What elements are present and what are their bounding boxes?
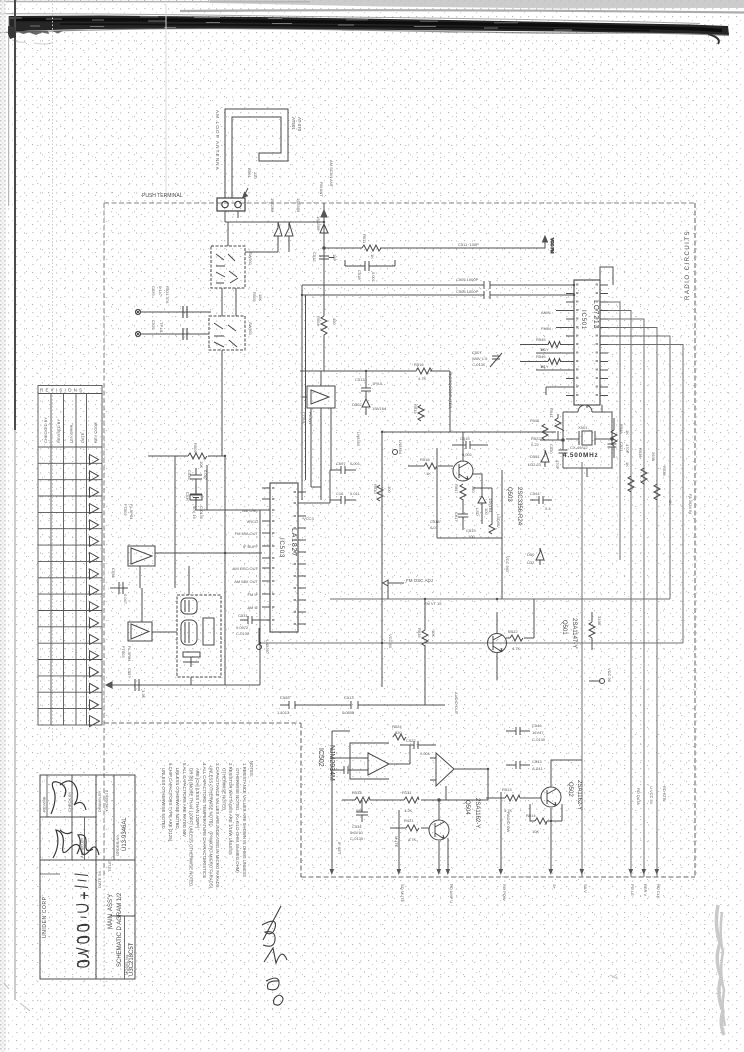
- svg-text:FM VT 15: FM VT 15: [424, 601, 442, 606]
- wire TP1: [141, 311, 211, 313]
- wire ic501 bottom pin: [587, 405, 602, 412]
- wire right bus C: [608, 319, 644, 877]
- capacitor C536: [190, 468, 202, 486]
- svg-text:OTHERWISE NOTED. (K=KILO-OHM,: OTHERWISE NOTED. (K=KILO-OHM, M=MEG OHM): [235, 768, 240, 873]
- svg-text:2SA1162-Y: 2SA1162-Y: [576, 780, 582, 810]
- svg-text:FL-5P64: FL-5P64: [129, 504, 134, 520]
- diode D501: [541, 450, 549, 467]
- svg-text:ARE [CH] (LESS THAN 120PF): ARE [CH] (LESS THAN 120PF): [195, 768, 200, 829]
- svg-text:4.7K: 4.7K: [512, 646, 521, 651]
- resistor R529: [589, 612, 595, 650]
- svg-text:18P: 18P: [332, 254, 337, 261]
- diode D503 varactor: [478, 496, 486, 510]
- wire FMIN: [556, 327, 566, 329]
- wire vcc90 vertical: [382, 432, 388, 687]
- svg-text:IC503: IC503: [278, 538, 284, 558]
- node label RADIO CIRCUITS: [685, 230, 691, 300]
- capacitor C529: [183, 306, 187, 318]
- wire fm ant vertical: [323, 238, 325, 371]
- wire opamp B out: [446, 769, 488, 800]
- svg-text:C522: C522: [406, 738, 416, 743]
- svg-text:CHECKED BY: CHECKED BY: [43, 417, 48, 443]
- diode D504: [536, 548, 544, 565]
- wire crystal right rail: [611, 412, 614, 441]
- svg-text:Q501: Q501: [561, 620, 567, 635]
- svg-text:RD STB: RD STB: [662, 786, 667, 801]
- svg-text:C525: C525: [151, 320, 156, 330]
- capacitor C543: [506, 761, 530, 769]
- svg-text:PT501: PT501: [302, 412, 307, 425]
- wire right bus A: [608, 302, 620, 560]
- transistor Q501: [488, 634, 507, 653]
- resistor R510: [377, 485, 383, 501]
- svg-text:SW501: SW501: [248, 252, 253, 266]
- svg-text:R517: R517: [454, 484, 459, 494]
- svg-text:R548: R548: [619, 424, 624, 434]
- diode D512: [320, 224, 328, 233]
- resistor R519: [489, 524, 495, 534]
- wire q503 bias loop: [437, 448, 502, 599]
- svg-text:0.001: 0.001: [420, 751, 431, 756]
- filter CF503: [128, 622, 152, 641]
- svg-text:AUDIO OUT: AUDIO OUT: [454, 692, 459, 715]
- wire q501 stubs: [497, 599, 534, 680]
- svg-text:1K: 1K: [625, 430, 630, 435]
- svg-text:1K: 1K: [370, 254, 375, 259]
- terminal TP1: [135, 309, 140, 314]
- capacitor C513: [361, 371, 371, 399]
- svg-text:SW501: SW501: [248, 322, 253, 336]
- svg-text:C505 1000P: C505 1000P: [456, 277, 479, 282]
- node label ANIN: [541, 310, 551, 315]
- svg-text:F546: F546: [530, 418, 540, 423]
- svg-text:SA V: SA V: [583, 884, 588, 893]
- svg-text:C544: C544: [530, 491, 540, 496]
- node label SQ MUTE: [400, 884, 405, 903]
- svg-text:R514: R514: [526, 813, 536, 818]
- svg-text:LN5394: LN5394: [398, 440, 403, 455]
- svg-text:C538: C538: [111, 568, 116, 578]
- svg-text:CHECK.BY: CHECK.BY: [67, 791, 72, 812]
- svg-text:C506 1000P: C506 1000P: [456, 289, 479, 294]
- schematic border frame: [103, 877, 105, 988]
- node label LN5393: [356, 432, 361, 447]
- svg-text:DATE: DATE: [80, 432, 85, 443]
- svg-text:0.011: 0.011: [350, 491, 360, 496]
- svg-text:C521: C521: [619, 442, 624, 452]
- svg-text:RD DATA: RD DATA: [636, 788, 641, 805]
- wire pin 13: [546, 387, 566, 395]
- node label Q501: [561, 618, 577, 648]
- svg-text:0.001: 0.001: [350, 461, 361, 466]
- svg-text:18K: 18K: [258, 294, 263, 301]
- svg-text:C519: C519: [466, 528, 476, 533]
- svg-text:U VCC 5V: U VCC 5V: [649, 786, 654, 805]
- svg-text:820: 820: [395, 730, 402, 735]
- wire crystal left rail: [540, 412, 564, 444]
- svg-text:16V47: 16V47: [532, 730, 544, 735]
- svg-text:R538: R538: [662, 466, 667, 476]
- wire q503 emitter right: [473, 474, 482, 524]
- wire antenna arrow: [243, 188, 248, 197]
- wire gnd drops: [332, 731, 501, 871]
- svg-text:R536: R536: [638, 448, 643, 458]
- capacitor C515b: [452, 441, 488, 449]
- svg-text:0.001: 0.001: [371, 272, 376, 283]
- svg-text:C557: C557: [127, 668, 132, 678]
- svg-text:R515: R515: [413, 404, 418, 414]
- svg-text:R509: R509: [193, 443, 198, 453]
- svg-text:C543: C543: [532, 759, 542, 764]
- wire fl502-fl503: [142, 588, 177, 632]
- svg-text:2SC3356-R24: 2SC3356-R24: [516, 487, 522, 526]
- wire y800: [342, 799, 488, 801]
- svg-text:C515: C515: [460, 436, 470, 441]
- resistor R513: [486, 795, 541, 801]
- svg-text:REV CODE: REV CODE: [93, 422, 98, 443]
- svg-text:R545: R545: [536, 337, 546, 342]
- handwritten E13-6994: [75, 874, 89, 967]
- svg-text:R505: R505: [252, 292, 257, 302]
- svg-text:1SV164: 1SV164: [488, 498, 493, 513]
- svg-text:450: 450: [332, 318, 337, 325]
- svg-text:10K: 10K: [199, 461, 204, 468]
- svg-text:C555: C555: [280, 695, 290, 700]
- wire q503 collector: [382, 371, 556, 461]
- node label U VCC 5V: [649, 786, 654, 805]
- svg-text:4.ALL CAPACITORS TEMPERATURE C: 4.ALL CAPACITORS TEMPERATURE CHARACTERIS…: [202, 763, 207, 878]
- resistor R512: [506, 635, 534, 641]
- wire hop crystal: [563, 405, 612, 412]
- svg-text:FT502: FT502: [123, 504, 128, 516]
- svg-text:2SA1147-Y: 2SA1147-Y: [571, 618, 577, 648]
- svg-text:0.01: 0.01: [430, 525, 439, 530]
- node label AM LOOP ANTENNA: [215, 110, 220, 171]
- svg-text:0.0972: 0.0972: [236, 625, 249, 630]
- svg-text:H1Y: H1Y: [541, 347, 549, 352]
- svg-text:470P: 470P: [555, 460, 560, 470]
- svg-text:UNLESS OTHERWISE NOTED.: UNLESS OTHERWISE NOTED.: [161, 768, 166, 830]
- node label SW501: [248, 252, 253, 336]
- diode D511: [285, 222, 293, 246]
- svg-text:2938: 2938: [651, 452, 656, 462]
- svg-text:C520: C520: [549, 444, 554, 454]
- svg-text:1SS355: 1SS355: [316, 216, 321, 231]
- IC U503 LA1827: [270, 483, 298, 632]
- filter PT501: [307, 386, 335, 408]
- svg-text:C16: C16: [336, 491, 344, 496]
- svg-text:C507: C507: [472, 350, 482, 355]
- svg-text:IC502: IC502: [317, 748, 324, 767]
- svg-text:WAV 1.5: WAV 1.5: [472, 356, 488, 361]
- node label 1SS355: [270, 198, 275, 213]
- svg-text:FM MIA OUT: FM MIA OUT: [235, 531, 259, 536]
- node label Q502: [567, 780, 582, 810]
- diode D502 varactor: [362, 399, 370, 415]
- svg-text:VCC 9IG: VCC 9IG: [505, 556, 510, 572]
- svg-text:R535: R535: [417, 628, 422, 638]
- svg-text:R513: R513: [502, 787, 512, 792]
- svg-text:C511 100P: C511 100P: [458, 242, 479, 247]
- svg-text:D502: D502: [352, 402, 362, 407]
- wire opamp A out: [330, 745, 410, 774]
- wire pin K1Y: [536, 369, 566, 371]
- svg-text:PO LE: PO LE: [630, 884, 635, 896]
- IC501 left pins: [566, 285, 574, 396]
- node label 4.500MHz: [563, 445, 599, 459]
- svg-text:4.500MHz: 4.500MHz: [563, 452, 599, 459]
- node label FA-3934-IN: [688, 494, 693, 514]
- svg-text:VCC3: VCC3: [303, 516, 314, 521]
- svg-text:REV/MK: REV/MK: [42, 796, 47, 812]
- capacitor C521: [608, 441, 617, 468]
- svg-text:C531: C531: [238, 613, 248, 618]
- resistor R548: [611, 418, 617, 458]
- svg-text:10K: 10K: [431, 630, 436, 637]
- svg-text:C546: C546: [532, 723, 542, 728]
- bottom arrowheads: [330, 869, 660, 875]
- svg-text:3.CAPACITANCE VALUES ARE INDIC: 3.CAPACITANCE VALUES ARE INDICATED IN MI…: [215, 763, 220, 888]
- wire antenna feed: [289, 203, 327, 246]
- svg-text:Q503: Q503: [506, 487, 512, 502]
- node label 1SS355: [316, 216, 321, 231]
- node label C511: [458, 242, 479, 247]
- svg-text:1K: 1K: [668, 500, 673, 505]
- IC U502 label: [317, 745, 335, 781]
- terminal LN5397: [257, 628, 262, 650]
- svg-text:SCHEMATIC D AGRAM 1/2: SCHEMATIC D AGRAM 1/2: [117, 892, 123, 967]
- svg-text:FA 3934 IN: FA 3934 IN: [688, 494, 693, 514]
- svg-text:LSD/5V: LSD/5V: [496, 514, 501, 528]
- svg-text:TITLE: TITLE: [107, 861, 112, 872]
- wire fl502 out: [155, 552, 262, 554]
- svg-text:OTHERWISE NOTED.: OTHERWISE NOTED.: [222, 768, 227, 811]
- wire am osc: [196, 502, 262, 510]
- wire between switches: [222, 288, 236, 316]
- svg-text:OR [B] (MORE THAN 120PF) UNLES: OR [B] (MORE THAN 120PF) UNLESS OTHERWIS…: [189, 768, 194, 887]
- svg-text:AM LOOP ANTENNA: AM LOOP ANTENNA: [215, 110, 220, 171]
- svg-text:AM OSC OUT: AM OSC OUT: [233, 566, 259, 571]
- connector push terminal: [217, 198, 245, 211]
- svg-text:REVISED BY: REVISED BY: [56, 419, 61, 443]
- svg-text:LN5393: LN5393: [356, 432, 361, 447]
- node label IF SET: [337, 842, 342, 855]
- capacitor C522: [400, 741, 436, 749]
- capacitor C531: [240, 616, 262, 624]
- svg-text:VRCO: VRCO: [246, 519, 258, 524]
- svg-text:Q502: Q502: [567, 782, 573, 797]
- resistor R541: [555, 414, 564, 440]
- svg-text:R541: R541: [549, 408, 554, 418]
- node label AT501: [291, 117, 302, 132]
- svg-text:5.ALL CAPACITORS ARE RATED 50V: 5.ALL CAPACITORS ARE RATED 50V: [182, 763, 187, 837]
- svg-text:LEV./MHA: LEV./MHA: [69, 424, 74, 443]
- trimmer C507: [472, 350, 488, 367]
- wire left verticals: [175, 350, 260, 685]
- wire crystal gnd: [563, 468, 612, 477]
- switch SW501-1: [211, 246, 245, 288]
- node label FM VT: [424, 601, 442, 606]
- node label X501: [578, 425, 588, 430]
- handwritten signatures: [51, 781, 99, 858]
- svg-text:FL-5P64: FL-5P64: [127, 646, 132, 662]
- svg-text:100: 100: [468, 534, 475, 539]
- svg-text:LC7213: LC7213: [592, 300, 599, 329]
- node junctions: [224, 221, 575, 822]
- svg-text:ORDER No.: ORDER No.: [115, 834, 120, 856]
- resistor R516: [416, 368, 432, 374]
- capacitor C546: [506, 727, 530, 735]
- wire right bus F: [608, 345, 683, 644]
- capacitor C544: [530, 496, 552, 504]
- svg-text:AM MIX OUT: AM MIX OUT: [234, 579, 258, 584]
- svg-text:X501: X501: [578, 425, 588, 430]
- svg-text:D50: D50: [527, 552, 535, 557]
- node label C518: [430, 519, 440, 530]
- node label FM-OSC-ADJ: [383, 578, 433, 586]
- svg-text:0.4: 0.4: [545, 506, 551, 511]
- svg-text:SQ MUTE: SQ MUTE: [400, 884, 405, 903]
- node label K1Y: [541, 364, 549, 369]
- svg-text:1P/UL: 1P/UL: [372, 381, 384, 386]
- svg-text:4.7K: 4.7K: [408, 837, 417, 842]
- node label MUTE: [394, 836, 399, 848]
- diode D510: [274, 222, 282, 246]
- node label FM ANT: [319, 160, 334, 197]
- svg-text:FT503: FT503: [121, 646, 126, 658]
- transistor Q504: [429, 820, 449, 840]
- capacitor C525: [183, 328, 187, 340]
- terminal TP2: [135, 331, 140, 336]
- node label SA V: [583, 884, 588, 893]
- node label 1SS355: [296, 198, 301, 213]
- transistor Q502: [541, 787, 561, 807]
- svg-text:K1Y: K1Y: [541, 364, 549, 369]
- svg-text:0.22: 0.22: [531, 442, 540, 447]
- svg-text:RADIO SW: RADIO SW: [506, 812, 511, 832]
- svg-text:1.2K: 1.2K: [404, 808, 413, 813]
- svg-text:AT-470: AT-470: [297, 117, 302, 132]
- svg-text:C-0130: C-0130: [472, 362, 486, 367]
- svg-text:1SV164: 1SV164: [372, 406, 387, 411]
- svg-text:C697: C697: [336, 461, 346, 466]
- svg-text:IC501: IC501: [580, 310, 586, 330]
- wire TP2: [141, 333, 209, 335]
- IC501 right pins: [600, 285, 608, 396]
- resistor R536: [628, 476, 634, 492]
- wire terminal down: [225, 211, 238, 246]
- svg-text:VCC FM: VCC FM: [550, 238, 555, 253]
- node label S+: [552, 884, 557, 890]
- transformer T501 discriminator: [177, 595, 221, 677]
- node label PUSH TERMINAL: [142, 193, 183, 199]
- svg-text:1K: 1K: [625, 462, 630, 467]
- antenna AT501 AM loop: [225, 109, 288, 198]
- wire y248: [323, 247, 545, 250]
- svg-text:R511: R511: [362, 234, 367, 244]
- svg-text:FM IF: FM IF: [248, 592, 259, 597]
- wire pin loop top: [600, 267, 613, 285]
- node label RO POW: [502, 884, 507, 901]
- svg-text:NOTES:: NOTES:: [249, 761, 254, 777]
- wire discriminator: [189, 566, 191, 685]
- resistor R522: [542, 424, 548, 440]
- svg-text:RER V: RER V: [643, 884, 648, 897]
- svg-text:3.3K: 3.3K: [141, 690, 146, 699]
- svg-text:C510: C510: [357, 270, 362, 280]
- svg-text:U13-9346AL: U13-9346AL: [122, 817, 128, 851]
- svg-text:S+: S+: [552, 884, 557, 890]
- node label C519: [466, 514, 501, 539]
- node label C506: [456, 289, 479, 294]
- svg-text:R521 476: R521 476: [165, 286, 170, 304]
- resistor R518: [408, 463, 453, 469]
- svg-text:1.1013: 1.1013: [277, 710, 290, 715]
- svg-text:R501: R501: [247, 168, 252, 178]
- svg-text:FMIN: FMIN: [541, 326, 551, 331]
- svg-text:AT501: AT501: [291, 117, 296, 130]
- resistor R545: [520, 342, 566, 348]
- wire right bus B: [608, 311, 631, 878]
- svg-text:C529: C529: [151, 286, 156, 296]
- wire bus y295: [302, 291, 574, 299]
- svg-text:VCC 90: VCC 90: [607, 668, 612, 683]
- svg-text:C-0130: C-0130: [350, 836, 364, 841]
- revisions table: [38, 386, 102, 726]
- resistor R501: [247, 168, 258, 179]
- op-amp U502B: [430, 753, 454, 786]
- capacitor C516: [330, 496, 356, 504]
- svg-text:U32: U32: [527, 560, 535, 565]
- capacitor C512: [319, 246, 334, 259]
- svg-text:RADIO CIRCUITS: RADIO CIRCUITS: [685, 230, 691, 300]
- svg-text:R512: R512: [508, 629, 518, 634]
- svg-text:R421: R421: [404, 818, 414, 823]
- svg-text:1K: 1K: [426, 471, 431, 476]
- svg-text:DATE '94: DATE '94: [97, 871, 102, 888]
- svg-text:AM IF: AM IF: [247, 605, 258, 610]
- wire bus y285: [302, 281, 574, 289]
- svg-text:5.6V10: 5.6V10: [350, 830, 363, 835]
- svg-text:C513: C513: [355, 377, 365, 382]
- wire diode top: [228, 222, 289, 252]
- svg-text:C537: C537: [185, 492, 190, 502]
- notes text block: [161, 761, 254, 889]
- node label S DATA: [662, 786, 667, 801]
- resistor R517: [460, 484, 466, 500]
- resistor R538: [654, 484, 660, 500]
- svg-text:2SA1162-Y: 2SA1162-Y: [474, 798, 480, 828]
- resistor R514: [530, 804, 562, 824]
- node label RER V: [643, 884, 648, 897]
- svg-text:DRAWN.BY: DRAWN.BY: [97, 790, 102, 812]
- svg-text:Y.MOSEKI 2: Y.MOSEKI 2: [104, 789, 109, 812]
- svg-text:C536: C536: [187, 470, 192, 480]
- svg-text:R504: R504: [316, 316, 321, 326]
- node label RD CLK: [656, 884, 661, 899]
- svg-text:LSD: LSD: [475, 508, 480, 516]
- resistor R535: [422, 599, 428, 705]
- resistor R421: [390, 825, 429, 831]
- node label VCC-90: [388, 634, 393, 649]
- svg-text:UNLESS OTHERWISE NOTED.: UNLESS OTHERWISE NOTED.: [175, 768, 180, 830]
- svg-text:MAIN ASS'Y: MAIN ASS'Y: [108, 894, 114, 929]
- svg-text:0.001: 0.001: [462, 452, 473, 457]
- svg-text:PUSH TERMINAL: PUSH TERMINAL: [142, 193, 183, 199]
- svg-text:0.0805: 0.0805: [342, 710, 355, 715]
- svg-text:IF BUFF: IF BUFF: [243, 544, 259, 549]
- node label RADIO-SW: [506, 812, 511, 832]
